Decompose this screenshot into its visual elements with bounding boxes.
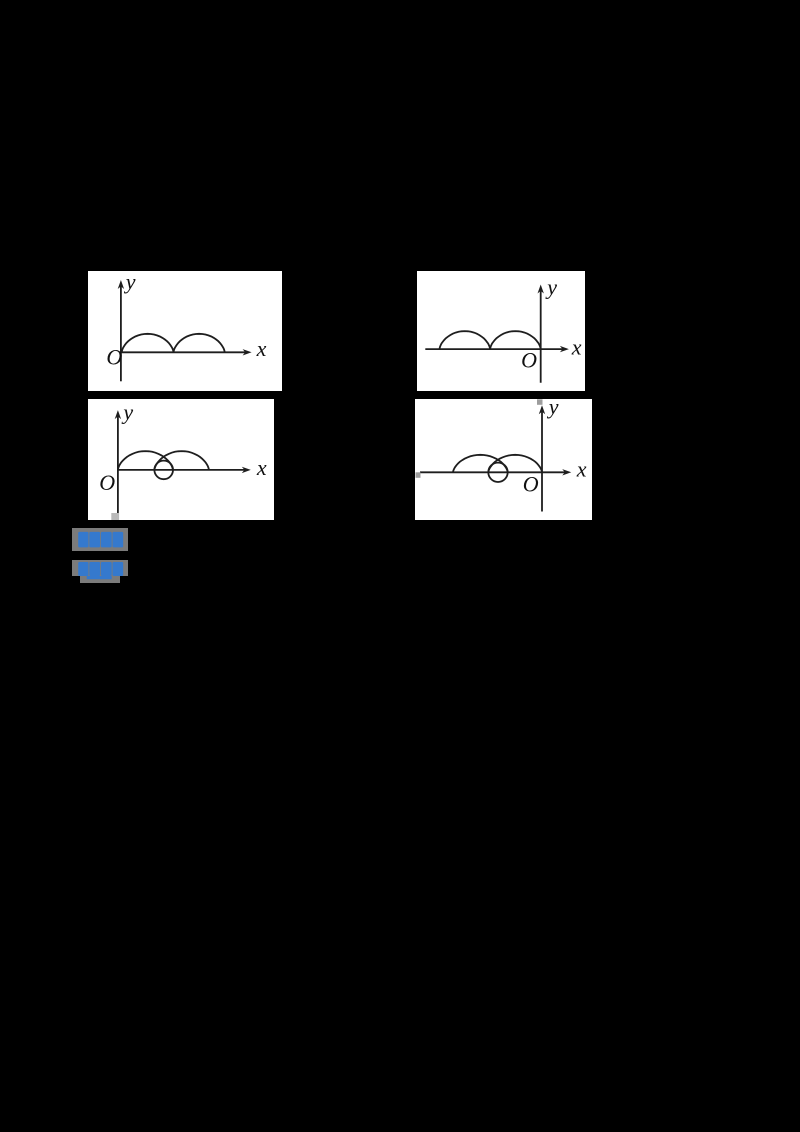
y-axis arrowhead [118, 280, 124, 289]
graph panel D (bottom-right): looped cycloid left of origin [415, 399, 592, 520]
loop circle at junction [488, 463, 507, 482]
cycloid arch 2 [490, 331, 541, 349]
badge 2 (gray tag with blue text, stepped bottom) [72, 560, 128, 576]
y-axis [539, 291, 541, 383]
svg-text:x: x [570, 335, 581, 360]
blue glyph block 2 [90, 531, 101, 546]
y-axis arrowhead [539, 405, 545, 414]
y-axis arrowhead [115, 410, 121, 419]
y-axis [541, 411, 543, 511]
badge 2 blue text [72, 560, 128, 584]
svg-text:O: O [521, 348, 537, 373]
x-axis arrowhead [562, 469, 571, 475]
looped cycloid arch 1 [118, 451, 173, 470]
svg-text:x: x [256, 454, 267, 479]
svg-text:y: y [124, 271, 136, 294]
x-axis [425, 348, 563, 350]
svg-text:x: x [256, 336, 267, 361]
blue glyph block 1 [78, 531, 88, 546]
svg-text:O: O [106, 345, 122, 370]
x-axis [118, 468, 245, 470]
svg-text:y: y [545, 275, 557, 300]
loop circle at junction [154, 460, 173, 479]
x-axis [121, 352, 246, 354]
gray selection handle top [537, 399, 542, 404]
x-axis arrowhead [559, 346, 568, 352]
svg-text:x: x [576, 457, 587, 482]
blue glyph block 3 [101, 531, 112, 546]
blue glyph block 4 [113, 531, 124, 546]
looped cycloid arch 2 [154, 451, 208, 470]
x-axis arrowhead [242, 466, 251, 472]
svg-text:O: O [99, 469, 115, 494]
svg-text:y: y [547, 399, 559, 419]
gray selection handle left [416, 472, 421, 477]
y-axis [120, 286, 122, 381]
cycloid arch 1 [122, 334, 174, 352]
gray selection handle [111, 512, 119, 519]
y-axis arrowhead [537, 285, 543, 294]
cycloid arch 1 [439, 331, 490, 349]
badge 2 lower extension [80, 576, 120, 583]
graph panel A (top-left): two cycloid arches right of origin [88, 271, 282, 391]
graph panel B (top-right): two cycloid arches left of origin [417, 271, 585, 391]
svg-text:y: y [121, 399, 133, 424]
svg-text:O: O [523, 472, 539, 497]
cycloid arch 2 [174, 334, 225, 352]
looped cycloid arch 2 [488, 455, 542, 472]
graph panel C (bottom-left): looped cycloid right of origin [88, 399, 274, 520]
x-axis arrowhead [243, 349, 252, 355]
x-axis [420, 471, 565, 473]
looped cycloid arch 1 [453, 455, 508, 472]
badge 1 (gray tag with blue text) [72, 528, 128, 552]
y-axis [117, 416, 119, 515]
